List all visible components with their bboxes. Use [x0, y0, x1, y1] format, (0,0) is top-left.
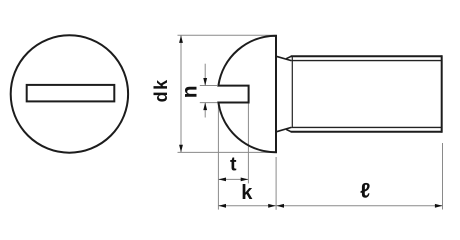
svg-text:ℓ: ℓ	[360, 180, 370, 203]
svg-text:k: k	[241, 182, 253, 204]
svg-text:t: t	[230, 153, 237, 175]
svg-text:n: n	[178, 85, 201, 98]
svg-text:dk: dk	[151, 78, 171, 102]
